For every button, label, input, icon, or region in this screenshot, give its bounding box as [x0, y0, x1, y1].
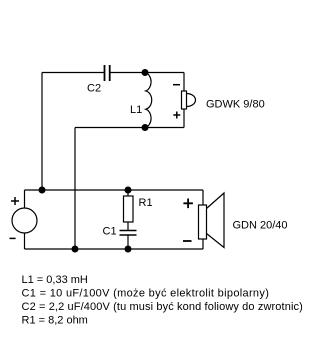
- svg-text:L1: L1: [130, 104, 142, 116]
- svg-text:C2 = 2,2 uF/400V (tu musi być: C2 = 2,2 uF/400V (tu musi być kond folio…: [22, 301, 303, 313]
- svg-text:C1 = 10 uF/100V (może być elek: C1 = 10 uF/100V (może być elektrolit bip…: [22, 288, 270, 300]
- svg-text:R1: R1: [139, 197, 153, 209]
- svg-text:C1: C1: [103, 226, 117, 238]
- svg-text:R1 = 8,2 ohm: R1 = 8,2 ohm: [22, 315, 88, 327]
- svg-text:GDN 20/40: GDN 20/40: [233, 220, 288, 232]
- svg-text:C2: C2: [87, 83, 101, 95]
- svg-text:L1 = 0,33 mH: L1 = 0,33 mH: [22, 274, 88, 286]
- svg-text:GDWK 9/80: GDWK 9/80: [206, 99, 265, 111]
